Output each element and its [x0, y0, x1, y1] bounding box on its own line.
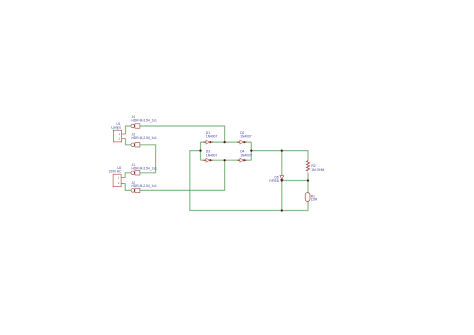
- diode D4: [237, 158, 246, 162]
- wire U1 pin1 to J4: [126, 126, 132, 134]
- svg-text:1N4007: 1N4007: [240, 135, 252, 139]
- wire U1 pin2 to J3: [126, 139, 132, 145]
- U1 pin numbers: [119, 133, 121, 141]
- svg-text:1N4007: 1N4007: [206, 135, 218, 139]
- junction D5 cathode: [281, 179, 283, 181]
- svg-text:1N4007: 1N4007: [240, 153, 252, 157]
- svg-text:HDR-M-2.54_1x1: HDR-M-2.54_1x1: [132, 136, 157, 140]
- wire bridge bottom rail: [201, 159, 252, 161]
- junction D5 top: [281, 150, 283, 152]
- wire bridge top rail: [201, 141, 252, 143]
- diode D3: [203, 158, 212, 162]
- junction left rail: [199, 150, 201, 152]
- wire J3 to J1: [140, 145, 156, 173]
- svg-text:1M OHM: 1M OHM: [311, 168, 324, 172]
- junction bridge top mid: [224, 141, 226, 143]
- junction R2 bottom: [307, 179, 309, 181]
- wire D5 cathode to R2 bottom: [282, 180, 308, 182]
- svg-text:LDR: LDR: [311, 198, 318, 202]
- connector J3: [131, 143, 140, 147]
- svg-text:Lamps: Lamps: [111, 126, 121, 130]
- wire positive route to R2 top: [251, 151, 308, 161]
- connector J2: [131, 188, 140, 192]
- svg-text:1N4007: 1N4007: [206, 153, 218, 157]
- svg-text:220V AC: 220V AC: [109, 170, 122, 174]
- diode D2: [237, 140, 246, 144]
- component U2 220V AC box: [113, 174, 125, 187]
- wire R2 bottom to LDR top: [307, 173, 309, 193]
- diode D5 pointing down: [280, 176, 284, 180]
- junction right rail: [250, 150, 252, 152]
- wire J4 to bridge top mid: [140, 126, 225, 142]
- photoresistor R1 LDR capsule: [305, 193, 310, 202]
- connector J4: [131, 124, 140, 128]
- connector J1: [131, 171, 140, 175]
- wire negative route to bottom rail and LDR bottom: [190, 151, 308, 211]
- wire bridge left rail: [200, 142, 202, 160]
- component U1 Lamps box: [113, 130, 125, 142]
- wire J2 to bridge bottom mid: [140, 160, 225, 190]
- U2 pin numbers: [118, 177, 120, 186]
- diode D1: [203, 140, 212, 144]
- resistor R2 zigzag: [306, 161, 309, 172]
- wire U2 pin2 to J2: [125, 183, 131, 190]
- svg-text:HDR-M-2.54_1x1: HDR-M-2.54_1x1: [132, 167, 157, 171]
- junction bridge bottom mid: [224, 159, 226, 161]
- svg-text:HDR-M-2.54_1x1: HDR-M-2.54_1x1: [132, 118, 157, 122]
- wire bridge right rail: [250, 142, 252, 160]
- wire D5 branch vertical: [281, 151, 283, 211]
- svg-text:F/RED: F/RED: [269, 179, 279, 183]
- junction bottom rail D5: [281, 209, 283, 211]
- svg-text:HDR-M-2.54_1x1: HDR-M-2.54_1x1: [132, 184, 157, 188]
- wire U2 pin1 to J1: [125, 173, 131, 178]
